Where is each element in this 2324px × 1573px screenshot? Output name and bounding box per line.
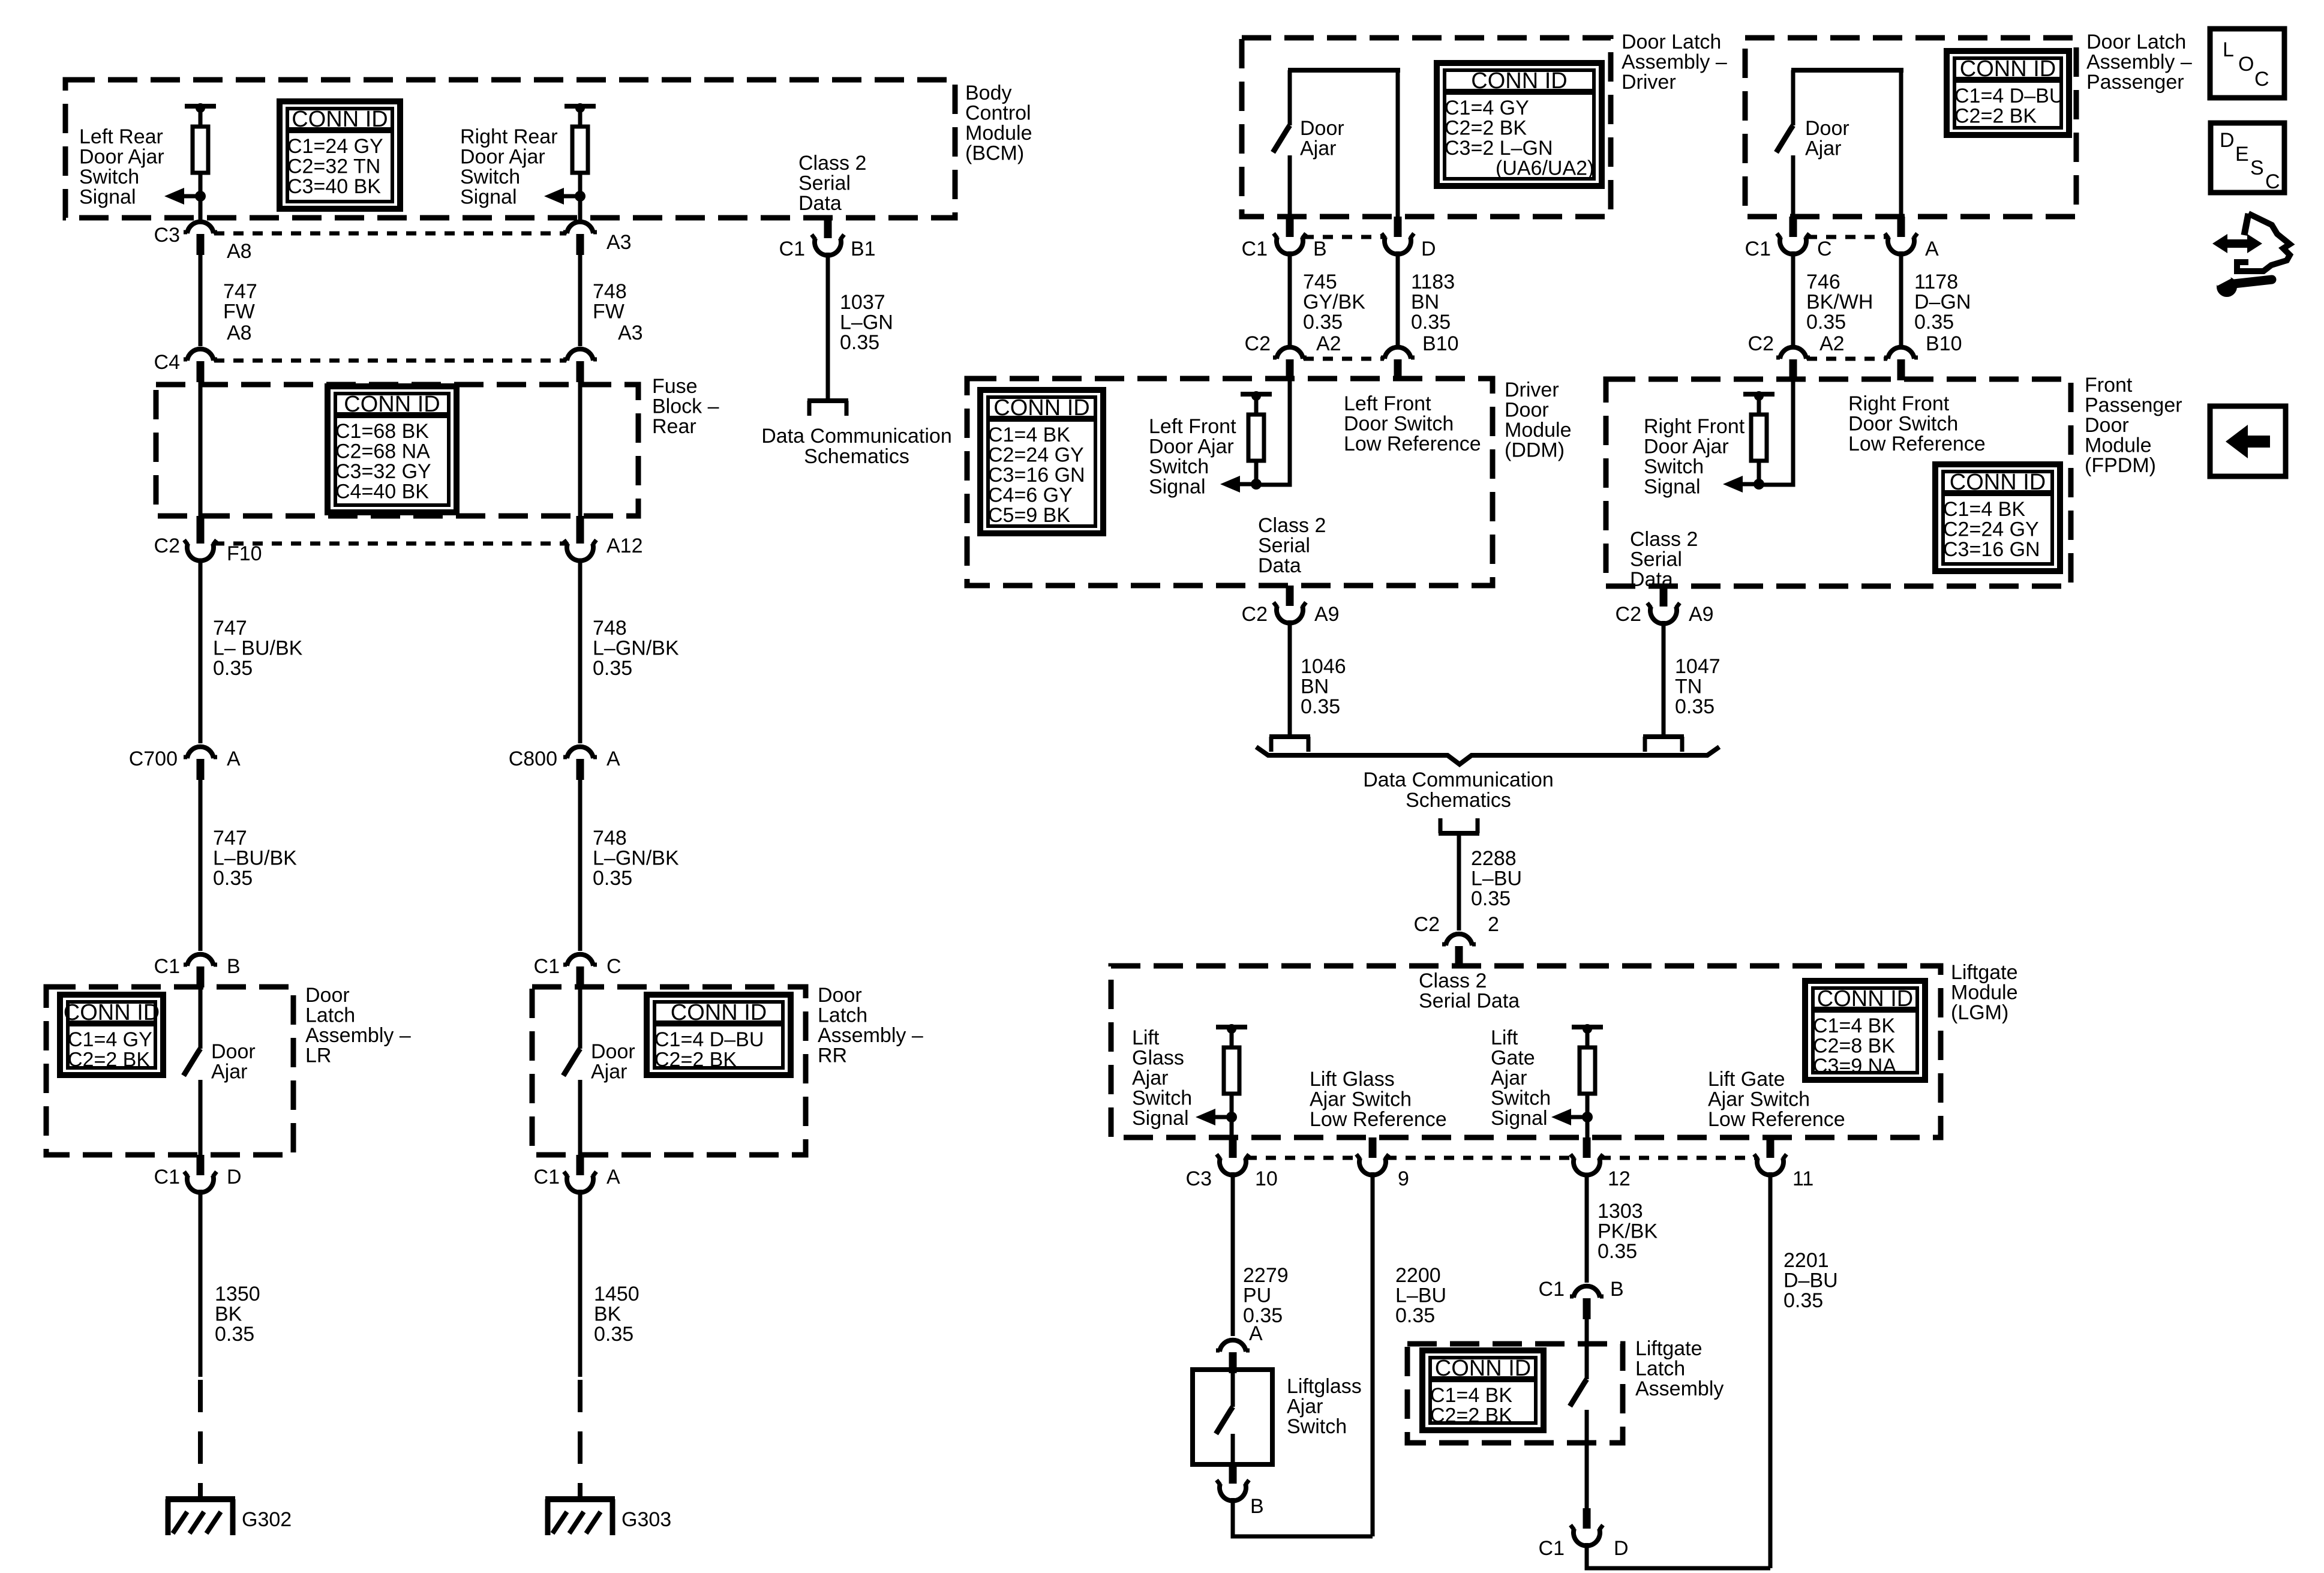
svg-text:10: 10 bbox=[1255, 1167, 1278, 1190]
svg-text:Passenger: Passenger bbox=[2085, 394, 2182, 417]
svg-text:Driver: Driver bbox=[1622, 71, 1676, 94]
connector plane FPDM A2 row (dotted) bbox=[1807, 357, 1887, 361]
svg-text:748: 748 bbox=[593, 280, 627, 303]
module box: Door Latch Assembly - Passenger bbox=[1745, 38, 2076, 217]
svg-text:Left Front: Left Front bbox=[1149, 415, 1236, 438]
CONN ID table (BCM) bbox=[280, 101, 400, 209]
wire 748 to C800 bbox=[578, 559, 582, 743]
svg-text:CONN ID: CONN ID bbox=[1817, 986, 1913, 1011]
svg-text:Assembly –: Assembly – bbox=[2086, 51, 2192, 74]
wire 2288 L-BU segment bbox=[1457, 833, 1461, 930]
wire 1183 BN label bbox=[1411, 271, 1455, 334]
svg-text:C4: C4 bbox=[154, 351, 180, 374]
wire: left col through fuse block bbox=[199, 382, 203, 517]
svg-text:Door: Door bbox=[591, 1040, 635, 1063]
svg-text:PU: PU bbox=[1243, 1284, 1271, 1307]
svg-text:Signal: Signal bbox=[1491, 1107, 1548, 1130]
svg-text:Assembly –: Assembly – bbox=[818, 1024, 923, 1047]
wire 748 FW label bbox=[593, 280, 627, 323]
label Class 2 Serial Data (FPDM) bbox=[1630, 528, 1698, 591]
svg-text:Class 2: Class 2 bbox=[1258, 514, 1326, 537]
svg-text:CONN ID: CONN ID bbox=[993, 395, 1089, 421]
label Class 2 Serial Data (DDM) bbox=[1258, 514, 1326, 577]
svg-text:1178: 1178 bbox=[1914, 271, 1958, 293]
connector C2/A2 (FPDM) bbox=[1748, 332, 1845, 380]
svg-text:A3: A3 bbox=[606, 231, 632, 254]
svg-text:(DDM): (DDM) bbox=[1505, 439, 1565, 462]
svg-text:748: 748 bbox=[593, 827, 627, 849]
connector C1/C (RR latch) bbox=[534, 954, 621, 987]
svg-text:Serial Data: Serial Data bbox=[1419, 990, 1520, 1013]
svg-text:0.35: 0.35 bbox=[593, 867, 632, 890]
connector C3/10 (LGM) bbox=[1186, 1137, 1278, 1190]
wire 1046 BN label bbox=[1301, 655, 1346, 718]
svg-text:A2: A2 bbox=[1819, 332, 1845, 355]
svg-text:Glass: Glass bbox=[1132, 1047, 1184, 1070]
resistor + signal arrow: Right Rear Door Ajar Switch (in BCM) bbox=[544, 103, 596, 205]
wire 1047 TN segment bbox=[1662, 621, 1666, 734]
label Door Latch Assembly - LR bbox=[305, 984, 411, 1067]
svg-text:C3=2 L–GN: C3=2 L–GN bbox=[1445, 137, 1553, 160]
svg-text:A12: A12 bbox=[606, 535, 643, 557]
svg-text:Module: Module bbox=[1951, 981, 2018, 1004]
svg-text:0.35: 0.35 bbox=[1675, 695, 1715, 718]
svg-text:A: A bbox=[1249, 1322, 1263, 1345]
svg-text:C2: C2 bbox=[1414, 913, 1440, 936]
wire 1046 BN segment bbox=[1288, 620, 1292, 734]
svg-text:C3=16 GN: C3=16 GN bbox=[988, 464, 1085, 487]
connector C1/B1 (BCM serial) bbox=[779, 218, 876, 260]
svg-text:2288: 2288 bbox=[1471, 847, 1517, 870]
wire 747 to C700 bbox=[199, 559, 203, 743]
svg-text:Gate: Gate bbox=[1491, 1047, 1535, 1070]
svg-text:(FPDM): (FPDM) bbox=[2085, 454, 2156, 477]
svg-text:Ajar Switch: Ajar Switch bbox=[1310, 1088, 1412, 1111]
wire 747 FW segment bbox=[199, 255, 203, 346]
label Fuse Block - Rear bbox=[652, 375, 719, 438]
svg-text:LR: LR bbox=[305, 1044, 331, 1067]
svg-text:L– BU/BK: L– BU/BK bbox=[213, 637, 303, 660]
svg-text:Ajar Switch: Ajar Switch bbox=[1708, 1088, 1810, 1111]
wire 1303 PK/BK label bbox=[1598, 1200, 1658, 1263]
svg-text:Latch: Latch bbox=[1635, 1358, 1685, 1380]
svg-text:Module: Module bbox=[2085, 434, 2152, 457]
connector A3b (right col fuse block) bbox=[563, 349, 597, 382]
svg-text:A3: A3 bbox=[618, 322, 643, 344]
wire 746 BK/WH label bbox=[1806, 271, 1873, 334]
connector B (liftglass switch) bbox=[1217, 1464, 1264, 1518]
svg-text:Door Latch: Door Latch bbox=[1622, 31, 1721, 53]
svg-text:C2: C2 bbox=[1242, 603, 1268, 626]
svg-text:C: C bbox=[2254, 68, 2269, 91]
svg-text:Serial: Serial bbox=[798, 172, 851, 195]
wire: right col through fuse block bbox=[578, 382, 582, 517]
wire 2279 PU label bbox=[1243, 1264, 1289, 1327]
svg-text:C3=32 GY: C3=32 GY bbox=[335, 460, 431, 483]
wire from B to bottom bbox=[1233, 1498, 1373, 1536]
wire: left col BCM to connector C3 bbox=[199, 196, 203, 220]
svg-text:Liftglass: Liftglass bbox=[1287, 1375, 1362, 1398]
svg-text:G303: G303 bbox=[621, 1508, 671, 1531]
svg-text:Ajar: Ajar bbox=[1491, 1067, 1527, 1089]
svg-text:Left Front: Left Front bbox=[1344, 392, 1431, 415]
wire 1350 BK segment bbox=[199, 1190, 203, 1377]
connector C1/B (driver latch) bbox=[1242, 217, 1327, 260]
svg-text:Ajar: Ajar bbox=[1287, 1395, 1323, 1418]
connector plane driver C1 row (dotted) bbox=[1304, 235, 1384, 239]
svg-text:Left Rear: Left Rear bbox=[79, 125, 163, 148]
svg-text:748: 748 bbox=[593, 617, 627, 640]
connector A3 (right col, BCM) bbox=[563, 222, 632, 255]
wire 2201 D-BU segment bbox=[1768, 1172, 1773, 1568]
svg-text:L–GN/BK: L–GN/BK bbox=[593, 637, 679, 660]
svg-text:1450: 1450 bbox=[594, 1283, 639, 1305]
svg-text:B: B bbox=[227, 955, 241, 978]
box: Liftglass Ajar Switch bbox=[1193, 1370, 1272, 1464]
svg-text:S: S bbox=[2250, 157, 2264, 179]
wire 1037 L-GN label bbox=[840, 291, 893, 354]
connector A (passenger latch) bbox=[1885, 217, 1939, 260]
connector C2/F10 (left col) bbox=[154, 516, 262, 565]
svg-text:Lift: Lift bbox=[1132, 1026, 1160, 1049]
svg-text:1046: 1046 bbox=[1301, 655, 1346, 678]
svg-text:C2: C2 bbox=[1748, 332, 1774, 355]
label Liftgate Module (LGM) bbox=[1951, 961, 2018, 1024]
svg-text:1047: 1047 bbox=[1675, 655, 1721, 678]
label Left Front Door Switch Low Reference bbox=[1344, 392, 1481, 455]
connector B10 (FPDM) bbox=[1884, 332, 1962, 380]
svg-text:E: E bbox=[2235, 143, 2249, 166]
label Body Control Module (BCM) bbox=[965, 82, 1032, 165]
svg-text:A8: A8 bbox=[227, 240, 252, 263]
svg-text:Low Reference: Low Reference bbox=[1310, 1108, 1447, 1131]
svg-text:Body: Body bbox=[965, 82, 1012, 104]
icon box left-arrow bbox=[2210, 406, 2286, 476]
wire 1450 BK segment bbox=[578, 1190, 582, 1377]
liftglass ajar switch contacts bbox=[1216, 1372, 1233, 1462]
wire 1183 segment bbox=[1396, 251, 1400, 346]
svg-text:745: 745 bbox=[1303, 271, 1337, 293]
svg-text:FW: FW bbox=[223, 301, 255, 323]
svg-text:Door Switch: Door Switch bbox=[1848, 413, 1958, 436]
wire 1037 L-GN segment bbox=[826, 253, 830, 398]
svg-text:C: C bbox=[2265, 170, 2280, 193]
wire lift glass signal to edge bbox=[1230, 1117, 1234, 1137]
svg-text:PK/BK: PK/BK bbox=[1598, 1220, 1658, 1243]
connector C2/A2 (DDM) bbox=[1245, 332, 1341, 380]
svg-text:747: 747 bbox=[223, 280, 257, 303]
svg-text:Passenger: Passenger bbox=[2086, 71, 2184, 94]
connector 9 (LGM) bbox=[1356, 1137, 1409, 1190]
label Door Latch Assembly - Passenger bbox=[2086, 31, 2192, 94]
svg-text:C2=24 GY: C2=24 GY bbox=[1943, 518, 2039, 541]
wire to G303 (dashed) bbox=[578, 1380, 582, 1497]
svg-text:A: A bbox=[606, 748, 620, 770]
connector plane F10 row (dotted) bbox=[214, 542, 566, 546]
svg-text:L–BU: L–BU bbox=[1395, 1284, 1446, 1307]
svg-text:C2=2 BK: C2=2 BK bbox=[1954, 105, 2037, 128]
svg-text:Low Reference: Low Reference bbox=[1344, 433, 1481, 455]
svg-text:Fuse: Fuse bbox=[652, 375, 698, 398]
svg-text:L–BU/BK: L–BU/BK bbox=[213, 847, 297, 870]
door ajar switch (Passenger) bbox=[1776, 70, 1903, 217]
svg-text:Switch: Switch bbox=[1132, 1087, 1192, 1110]
module box: Door Latch Assembly - LR bbox=[46, 987, 293, 1155]
svg-text:0.35: 0.35 bbox=[1303, 311, 1343, 334]
svg-text:Door Latch: Door Latch bbox=[2086, 31, 2186, 53]
label Door Ajar (Passenger) bbox=[1805, 117, 1849, 160]
svg-text:Ajar: Ajar bbox=[1805, 137, 1841, 160]
svg-text:C1=68 BK: C1=68 BK bbox=[335, 420, 429, 443]
label Door Latch Assembly - Driver bbox=[1622, 31, 1727, 94]
svg-text:D–BU: D–BU bbox=[1783, 1269, 1838, 1292]
svg-text:C1=4 BK: C1=4 BK bbox=[988, 424, 1070, 446]
svg-text:Front: Front bbox=[2085, 374, 2133, 397]
CONN ID table (Fuse Block) bbox=[328, 386, 457, 512]
svg-text:Liftgate: Liftgate bbox=[1951, 961, 2018, 984]
module box: Liftgate Module (LGM) bbox=[1111, 966, 1941, 1137]
svg-text:0.35: 0.35 bbox=[1806, 311, 1846, 334]
svg-text:Class 2: Class 2 bbox=[798, 152, 866, 175]
svg-text:0.35: 0.35 bbox=[1783, 1289, 1823, 1312]
wire 2288 L-BU label bbox=[1471, 847, 1522, 910]
svg-text:C1: C1 bbox=[534, 955, 560, 978]
svg-text:Door: Door bbox=[211, 1040, 256, 1063]
svg-text:Door: Door bbox=[818, 984, 862, 1007]
svg-text:C3=9 NA: C3=9 NA bbox=[1813, 1055, 1896, 1077]
connector A (liftglass switch) bbox=[1216, 1340, 1250, 1373]
wire 748 to C1/C bbox=[578, 780, 582, 951]
svg-text:Signal: Signal bbox=[79, 186, 136, 209]
svg-text:RR: RR bbox=[818, 1044, 847, 1067]
svg-text:C1: C1 bbox=[1539, 1278, 1565, 1301]
svg-text:C3=40 BK: C3=40 BK bbox=[287, 175, 381, 198]
svg-text:A8: A8 bbox=[227, 322, 252, 344]
wire 747 FW label bbox=[223, 280, 257, 323]
svg-text:C800: C800 bbox=[509, 748, 557, 770]
label Right Front Door Switch Low Reference bbox=[1848, 392, 1986, 455]
label Right Rear Door Ajar Switch Signal bbox=[460, 125, 558, 209]
connector C4 (left col) bbox=[154, 349, 217, 382]
svg-text:Door: Door bbox=[305, 984, 350, 1007]
svg-text:C3=16 GN: C3=16 GN bbox=[1943, 538, 2040, 561]
connector C3/A8 (left col) bbox=[154, 222, 252, 263]
liftgate latch switch bbox=[1570, 1319, 1587, 1508]
svg-text:747: 747 bbox=[213, 827, 247, 849]
connector D (driver latch) bbox=[1382, 217, 1436, 260]
svg-text:Door Ajar: Door Ajar bbox=[79, 146, 164, 169]
wire 1450 BK label bbox=[594, 1283, 639, 1346]
CONN ID table (LGM) bbox=[1805, 981, 1925, 1080]
svg-text:GY/BK: GY/BK bbox=[1303, 291, 1365, 314]
label Data Communication Schematics (center) bbox=[1363, 769, 1553, 812]
ground G302 bbox=[166, 1499, 292, 1535]
svg-text:Switch: Switch bbox=[1149, 455, 1209, 478]
svg-text:0.35: 0.35 bbox=[215, 1323, 254, 1346]
svg-text:Serial: Serial bbox=[1258, 535, 1310, 557]
svg-text:C3: C3 bbox=[154, 224, 180, 247]
label Front Passenger Door Module (FPDM) bbox=[2085, 374, 2182, 477]
svg-text:(BCM): (BCM) bbox=[965, 142, 1024, 165]
svg-text:C2=2 BK: C2=2 BK bbox=[1445, 117, 1527, 140]
CONN ID table (DDM) bbox=[980, 390, 1103, 533]
svg-text:CONN ID: CONN ID bbox=[671, 1000, 767, 1025]
svg-text:Schematics: Schematics bbox=[1406, 789, 1511, 812]
label Lift Gate Ajar Switch Low Reference bbox=[1708, 1068, 1845, 1131]
svg-text:C2=68 NA: C2=68 NA bbox=[335, 440, 430, 463]
svg-text:A: A bbox=[606, 1166, 620, 1188]
svg-text:0.35: 0.35 bbox=[213, 657, 253, 680]
svg-text:B1: B1 bbox=[851, 238, 876, 260]
svg-text:Data Communication: Data Communication bbox=[761, 425, 951, 448]
svg-text:CONN ID: CONN ID bbox=[344, 392, 440, 417]
connector C2/A9 (DDM) bbox=[1242, 586, 1340, 626]
svg-text:Door: Door bbox=[1300, 117, 1344, 140]
svg-text:C2: C2 bbox=[1245, 332, 1271, 355]
svg-text:0.35: 0.35 bbox=[594, 1323, 633, 1346]
svg-text:Data: Data bbox=[1258, 554, 1301, 577]
svg-text:C1=4 BK: C1=4 BK bbox=[1813, 1014, 1895, 1037]
svg-text:CONN ID: CONN ID bbox=[292, 107, 388, 132]
svg-text:O: O bbox=[2238, 53, 2254, 76]
label Lift Gate Ajar Switch Signal bbox=[1491, 1026, 1551, 1130]
svg-text:D: D bbox=[1421, 238, 1436, 260]
brace (data communication) bbox=[1256, 747, 1719, 764]
resistor + signal arrow: Right Front Door Ajar (FPDM) bbox=[1723, 391, 1774, 493]
svg-text:CONN ID: CONN ID bbox=[64, 1000, 160, 1025]
svg-text:F10: F10 bbox=[227, 542, 262, 565]
svg-text:Data: Data bbox=[798, 192, 842, 215]
svg-text:1350: 1350 bbox=[215, 1283, 260, 1305]
svg-text:BN: BN bbox=[1301, 676, 1329, 698]
module box: Door Latch Assembly - RR bbox=[532, 987, 806, 1155]
svg-text:C1: C1 bbox=[1242, 238, 1268, 260]
svg-text:0.35: 0.35 bbox=[840, 331, 879, 354]
svg-text:CONN ID: CONN ID bbox=[1960, 56, 2056, 82]
svg-text:BK/WH: BK/WH bbox=[1806, 291, 1873, 314]
connector 12 (LGM) bbox=[1571, 1137, 1631, 1190]
svg-text:11: 11 bbox=[1792, 1167, 1813, 1190]
svg-text:0.35: 0.35 bbox=[1598, 1240, 1637, 1263]
wire 747 L-BU/BK label (upper) bbox=[213, 617, 303, 680]
svg-text:0.35: 0.35 bbox=[1914, 311, 1954, 334]
svg-text:L–BU: L–BU bbox=[1471, 867, 1522, 890]
svg-text:BK: BK bbox=[594, 1303, 621, 1326]
svg-text:A: A bbox=[227, 748, 241, 770]
label Left Front Door Ajar Switch Signal bbox=[1149, 415, 1236, 499]
svg-text:Data Communication: Data Communication bbox=[1363, 769, 1553, 791]
svg-text:Door: Door bbox=[2085, 414, 2129, 437]
svg-text:C1=4 D–BU: C1=4 D–BU bbox=[1954, 85, 2064, 107]
svg-text:Signal: Signal bbox=[460, 186, 517, 209]
connector C1/A (below RR) bbox=[534, 1155, 620, 1193]
svg-text:2279: 2279 bbox=[1243, 1264, 1289, 1287]
svg-text:C2: C2 bbox=[154, 535, 180, 557]
connector 11 (LGM) bbox=[1754, 1137, 1813, 1190]
svg-text:2201: 2201 bbox=[1783, 1249, 1829, 1272]
connector C2/A9 (FPDM) bbox=[1616, 586, 1714, 626]
connector C1/B (liftgate latch) bbox=[1539, 1278, 1624, 1319]
svg-text:C1=4 BK: C1=4 BK bbox=[1943, 498, 2025, 521]
svg-text:Low Reference: Low Reference bbox=[1708, 1108, 1845, 1131]
connector B10 (DDM) bbox=[1381, 332, 1459, 380]
wire 745 segment bbox=[1288, 251, 1292, 346]
svg-text:C2=2 BK: C2=2 BK bbox=[654, 1049, 737, 1071]
ground G303 bbox=[545, 1499, 671, 1535]
svg-text:B: B bbox=[1250, 1495, 1264, 1518]
svg-text:Door: Door bbox=[1805, 117, 1849, 140]
svg-text:Module: Module bbox=[965, 122, 1032, 145]
svg-text:Schematics: Schematics bbox=[804, 445, 909, 468]
off-page cap (1037 wire) bbox=[807, 401, 848, 416]
CONN ID table (FPDM) bbox=[1935, 464, 2060, 571]
svg-text:Right Rear: Right Rear bbox=[460, 125, 558, 148]
svg-text:C700: C700 bbox=[129, 748, 178, 770]
svg-text:Signal: Signal bbox=[1149, 476, 1206, 499]
svg-text:B10: B10 bbox=[1926, 332, 1962, 355]
svg-text:Assembly: Assembly bbox=[1635, 1377, 1724, 1400]
svg-text:C5=9 BK: C5=9 BK bbox=[988, 504, 1070, 527]
label Left Rear Door Ajar Switch Signal bbox=[79, 125, 164, 209]
label Liftgate Latch Assembly bbox=[1635, 1337, 1724, 1400]
svg-text:Door: Door bbox=[1505, 399, 1549, 422]
wire 2279 PU segment bbox=[1231, 1172, 1235, 1336]
connector C1/D (liftgate latch) bbox=[1539, 1508, 1629, 1560]
svg-text:9: 9 bbox=[1398, 1167, 1409, 1190]
svg-text:0.35: 0.35 bbox=[1471, 887, 1511, 910]
module box: Fuse Block - Rear bbox=[156, 385, 638, 516]
CONN ID table (Driver latch) bbox=[1437, 63, 1602, 186]
svg-text:G302: G302 bbox=[242, 1508, 292, 1531]
svg-text:Right Front: Right Front bbox=[1644, 415, 1745, 438]
connector plane LGM row (dotted) bbox=[1247, 1156, 1756, 1160]
svg-text:1183: 1183 bbox=[1411, 271, 1455, 293]
label Data Communication Schematics (left) bbox=[761, 425, 951, 468]
svg-text:2: 2 bbox=[1488, 913, 1499, 936]
wire from A2 into DDM bbox=[1256, 379, 1290, 485]
svg-text:A2: A2 bbox=[1316, 332, 1341, 355]
svg-text:TN: TN bbox=[1675, 676, 1702, 698]
CONN ID table (Liftgate latch) bbox=[1422, 1350, 1544, 1430]
svg-text:Liftgate: Liftgate bbox=[1635, 1337, 1703, 1360]
svg-text:1037: 1037 bbox=[840, 291, 885, 314]
wire 748 L-GN/BK label (lower) bbox=[593, 827, 679, 890]
wire from A2 into FPDM bbox=[1759, 379, 1793, 485]
svg-text:0.35: 0.35 bbox=[1395, 1304, 1435, 1327]
svg-text:Class 2: Class 2 bbox=[1630, 528, 1698, 551]
svg-text:Block –: Block – bbox=[652, 395, 719, 418]
label Door Latch Assembly - RR bbox=[818, 984, 923, 1067]
module box: Liftgate Latch Assembly bbox=[1407, 1344, 1623, 1443]
svg-text:747: 747 bbox=[213, 617, 247, 640]
svg-text:C2=8 BK: C2=8 BK bbox=[1813, 1035, 1895, 1058]
svg-text:C1=4 D–BU: C1=4 D–BU bbox=[654, 1028, 764, 1051]
svg-text:D–GN: D–GN bbox=[1914, 291, 1971, 314]
svg-text:C2=2 BK: C2=2 BK bbox=[1430, 1404, 1512, 1427]
svg-text:Door Ajar: Door Ajar bbox=[1149, 436, 1234, 458]
svg-text:0.35: 0.35 bbox=[213, 867, 253, 890]
svg-text:Assembly –: Assembly – bbox=[1622, 51, 1727, 74]
svg-text:Switch: Switch bbox=[1644, 455, 1704, 478]
svg-text:B: B bbox=[1313, 238, 1327, 260]
wire from D to bottom bbox=[1587, 1543, 1770, 1568]
svg-text:Switch: Switch bbox=[1287, 1415, 1347, 1438]
svg-text:C2=32 TN: C2=32 TN bbox=[287, 155, 380, 178]
wire 1178 segment bbox=[1899, 251, 1903, 346]
door ajar switch (Driver) bbox=[1273, 70, 1400, 217]
svg-text:B10: B10 bbox=[1422, 332, 1459, 355]
svg-text:BN: BN bbox=[1411, 291, 1439, 314]
